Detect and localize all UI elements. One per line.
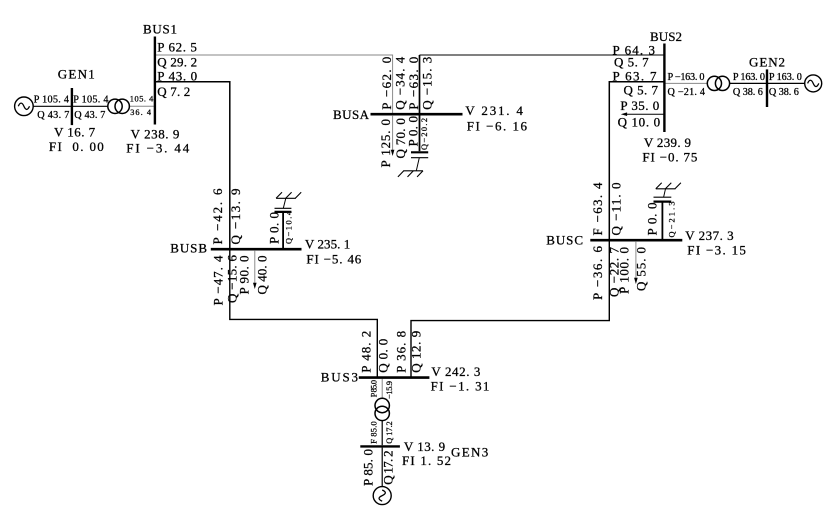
svg-text:FI −3. 15: FI −3. 15 bbox=[687, 243, 746, 258]
svg-text:P 43. 0: P 43. 0 bbox=[157, 69, 197, 84]
svg-text:P 163. 0: P 163. 0 bbox=[769, 72, 802, 83]
svg-text:V 239. 9: V 239. 9 bbox=[644, 135, 691, 150]
svg-text:P 100. 0: P 100. 0 bbox=[617, 247, 632, 294]
svg-text:Q−10.4: Q−10.4 bbox=[284, 210, 293, 244]
capacitor plate BUSB thin bbox=[275, 207, 292, 209]
transformer T3 circle a bbox=[375, 398, 389, 412]
svg-text:P 48. 2: P 48. 2 bbox=[359, 331, 374, 373]
wire GEN1 generator to transformer T1 bbox=[33, 105, 108, 107]
capacitor plate BUSC thin bbox=[654, 196, 672, 198]
svg-text:V 235. 1: V 235. 1 bbox=[305, 237, 350, 252]
svg-text:Q 17. 2: Q 17. 2 bbox=[380, 450, 395, 484]
load arrow at BUS2 (P35 Q10) bbox=[626, 113, 664, 115]
generator G2 sine wave bbox=[808, 80, 819, 86]
svg-text:FI −3. 44: FI −3. 44 bbox=[126, 141, 189, 156]
capacitor plate BUSC thick bbox=[654, 201, 672, 203]
svg-text:V 238. 9: V 238. 9 bbox=[131, 127, 180, 142]
generator G3 sine wave bbox=[379, 490, 385, 501]
capacitor plate BUSA thin bbox=[411, 157, 428, 159]
svg-text:Q 43. 7: Q 43. 7 bbox=[37, 110, 69, 121]
wire capacitor BUSB to ground bbox=[283, 198, 286, 208]
bus BUS1 bar bbox=[154, 37, 156, 125]
svg-text:−15.9: −15.9 bbox=[385, 381, 394, 399]
svg-text:P 90. 0: P 90. 0 bbox=[237, 256, 252, 295]
svg-text:P 0. 0: P 0. 0 bbox=[267, 212, 282, 244]
svg-text:P 105. 4: P 105. 4 bbox=[34, 94, 69, 105]
wire transformer T1 to BUS1 (grey) bbox=[129, 105, 154, 107]
svg-text:P 0. 0: P 0. 0 bbox=[405, 116, 420, 147]
svg-text:FI 0. 00: FI 0. 00 bbox=[49, 139, 104, 154]
svg-text:P 63. 7: P 63. 7 bbox=[613, 69, 658, 84]
wire BUS3 to transformer T3 (grey) bbox=[381, 379, 383, 399]
wire line BUS1-BUSB (P43.0 branch) bbox=[156, 82, 230, 249]
svg-text:FI −0. 75: FI −0. 75 bbox=[642, 150, 697, 165]
load arrow at BUSB (P90 Q40) bbox=[254, 250, 256, 284]
svg-text:P 85.0: P 85.0 bbox=[370, 380, 379, 397]
shunt branch wire BUSA bbox=[419, 115, 421, 151]
bus BUSC bar bbox=[590, 239, 682, 242]
wire line BUSB-BUS3 bbox=[230, 250, 377, 376]
svg-text:Q 7. 2: Q 7. 2 bbox=[157, 84, 190, 99]
svg-text:36. 4: 36. 4 bbox=[130, 108, 152, 117]
generator G1 sine wave bbox=[18, 103, 29, 109]
svg-text:V 237. 3: V 237. 3 bbox=[685, 228, 733, 243]
bus GEN3 bar bbox=[360, 445, 400, 447]
svg-text:Q −15. 3: Q −15. 3 bbox=[420, 57, 435, 110]
svg-text:FI −5. 46: FI −5. 46 bbox=[306, 251, 361, 266]
generator G2 circle bbox=[805, 75, 822, 92]
svg-text:Q−20.2: Q−20.2 bbox=[420, 118, 429, 150]
svg-text:Q 43. 7: Q 43. 7 bbox=[74, 110, 105, 121]
wire line BUS1-BUSA (P62.5 branch) bbox=[156, 55, 393, 113]
ground at BUSA bbox=[403, 170, 423, 172]
load arrow at BUSA (P125 Q70) bbox=[392, 115, 394, 151]
svg-text:P 125. 0: P 125. 0 bbox=[378, 119, 393, 168]
svg-text:Q 17.2: Q 17.2 bbox=[385, 421, 394, 444]
svg-text:V 16. 7: V 16. 7 bbox=[54, 124, 96, 139]
load arrow at BUSC (P100 Q55) bbox=[635, 241, 637, 279]
bus BUSB bar bbox=[211, 248, 302, 251]
svg-text:F 85.0: F 85.0 bbox=[370, 421, 379, 444]
bus BUSA bar bbox=[371, 113, 463, 116]
wire line BUSA-BUS2 horizontal bbox=[420, 54, 664, 56]
svg-text:P 36. 8: P 36. 8 bbox=[394, 331, 409, 373]
svg-text:P −163. 0: P −163. 0 bbox=[668, 72, 705, 83]
shunt branch wire BUSC bbox=[661, 203, 663, 240]
svg-text:Q 0. 0: Q 0. 0 bbox=[375, 339, 390, 373]
wire BUS2 to transformer T2 (grey) bbox=[666, 82, 708, 84]
capacitor plate BUSA thick bbox=[411, 151, 428, 153]
capacitor plate BUSB thick bbox=[275, 211, 292, 213]
svg-text:P 163. 0: P 163. 0 bbox=[733, 72, 765, 83]
svg-text:Q 55. 0: Q 55. 0 bbox=[634, 247, 649, 291]
wire line BUSC-BUS3 bbox=[411, 241, 609, 376]
wire GEN3 bar to generator G3 bbox=[381, 448, 383, 487]
generator G3 circle bbox=[373, 487, 391, 505]
wire transformer T2 to GEN2 and generator G2 bbox=[729, 82, 804, 84]
generator G1 circle bbox=[15, 97, 34, 116]
transformer T2 circle a bbox=[707, 76, 721, 90]
svg-text:Q 38. 6: Q 38. 6 bbox=[733, 87, 763, 98]
svg-text:V 242. 3: V 242. 3 bbox=[431, 364, 480, 379]
svg-text:P 105. 4: P 105. 4 bbox=[73, 94, 108, 105]
svg-text:Q 5. 7: Q 5. 7 bbox=[624, 83, 659, 98]
svg-text:Q 12. 9: Q 12. 9 bbox=[409, 331, 424, 373]
wire line BUSA-BUS2 vertical riser bbox=[419, 55, 421, 113]
svg-text:BUSC: BUSC bbox=[546, 233, 583, 248]
svg-text:FI −1. 31: FI −1. 31 bbox=[431, 379, 490, 394]
bus BUS3 bar bbox=[359, 376, 430, 379]
svg-text:P 62. 5: P 62. 5 bbox=[157, 39, 197, 54]
transformer T3 circle b bbox=[375, 406, 389, 420]
wire transformer T3 to GEN3 bar bbox=[381, 421, 383, 446]
svg-text:Q 10. 0: Q 10. 0 bbox=[618, 114, 661, 129]
svg-text:GEN1: GEN1 bbox=[58, 67, 95, 82]
svg-text:Q 38. 6: Q 38. 6 bbox=[769, 87, 799, 98]
bus GEN2 bar bbox=[766, 69, 768, 107]
svg-text:P 35. 0: P 35. 0 bbox=[620, 98, 659, 113]
svg-text:V 13. 9: V 13. 9 bbox=[404, 439, 445, 454]
svg-text:Q −21. 4: Q −21. 4 bbox=[668, 87, 706, 98]
svg-text:GEN2: GEN2 bbox=[749, 55, 785, 70]
svg-text:GEN3: GEN3 bbox=[451, 445, 488, 460]
ground at BUSC bbox=[656, 188, 676, 190]
svg-text:FI −6. 16: FI −6. 16 bbox=[467, 119, 528, 134]
transformer T1 circle b bbox=[115, 99, 129, 113]
wire capacitor BUSC to ground bbox=[664, 189, 666, 197]
bus BUS2 bar bbox=[663, 44, 665, 133]
bus GEN1 bar bbox=[71, 88, 73, 125]
svg-text:P −47. 4: P −47. 4 bbox=[210, 255, 225, 306]
shunt branch wire BUSB bbox=[282, 213, 284, 248]
svg-text:BUSB: BUSB bbox=[170, 241, 207, 256]
svg-text:Q 29. 2: Q 29. 2 bbox=[157, 54, 197, 69]
transformer T1 circle a bbox=[108, 99, 122, 113]
svg-text:Q 5. 7: Q 5. 7 bbox=[614, 55, 649, 70]
transformer T2 circle b bbox=[715, 76, 729, 90]
svg-text:Q −13. 9: Q −13. 9 bbox=[228, 189, 243, 245]
svg-text:P −62. 0: P −62. 0 bbox=[379, 57, 394, 110]
svg-text:P 85. 0: P 85. 0 bbox=[361, 449, 376, 486]
svg-text:BUS3: BUS3 bbox=[321, 370, 358, 385]
svg-text:BUSA: BUSA bbox=[333, 107, 370, 122]
wire capacitor BUSA to ground bbox=[416, 158, 419, 171]
svg-text:BUS1: BUS1 bbox=[143, 22, 177, 37]
ground at BUSB bbox=[276, 197, 296, 199]
svg-text:Q −11. 0: Q −11. 0 bbox=[608, 183, 623, 236]
wire line BUS2-BUSC (P63.7 branch) bbox=[609, 82, 663, 240]
svg-text:105. 4: 105. 4 bbox=[130, 95, 154, 104]
svg-text:P 0. 0: P 0. 0 bbox=[645, 203, 660, 236]
svg-text:Q 40. 0: Q 40. 0 bbox=[255, 256, 270, 295]
